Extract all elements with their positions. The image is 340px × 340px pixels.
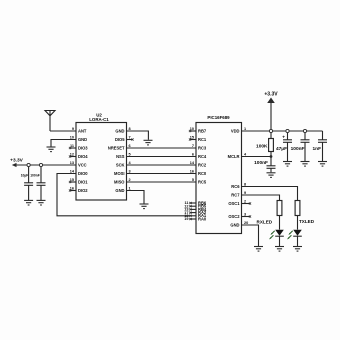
svg-text:RC6: RC6 — [231, 184, 240, 189]
svg-text:100nF: 100nF — [30, 174, 40, 178]
svg-text:8: 8 — [129, 127, 131, 131]
svg-text:100K: 100K — [256, 144, 268, 150]
module U2 LORA-C1 — [70, 113, 132, 201]
svg-text:1nF: 1nF — [312, 146, 321, 152]
svg-text:OSC1: OSC1 — [228, 201, 240, 206]
svg-text:13: 13 — [70, 161, 74, 165]
svg-text:GND: GND — [115, 128, 124, 133]
wire U2 MISO pin 2 to U1 RC5 pin 5 — [127, 181, 197, 183]
U1 pin 15 RC1 no-connect stub — [189, 138, 196, 140]
U1 pin 11 RB6 no-connect stub — [189, 202, 196, 204]
svg-text:9: 9 — [244, 191, 246, 195]
wire U2 NRESET pin 6 to U1 RC3 pin 7 — [127, 147, 197, 149]
ground — [275, 247, 284, 252]
svg-text:RC0: RC0 — [198, 171, 207, 176]
svg-text:PIC16F689: PIC16F689 — [207, 115, 230, 120]
U2 pin 7 DIO5 no-connect stub — [127, 138, 134, 140]
svg-text:+: + — [282, 136, 285, 141]
wire U1 VDD pin 1 rail — [242, 130, 323, 132]
wire antenna to U2 ANT pin 9 — [50, 130, 76, 132]
svg-text:100nF: 100nF — [254, 160, 268, 166]
svg-text:OSC2: OSC2 — [228, 214, 240, 219]
LED RXLED — [269, 216, 284, 247]
svg-text:10: 10 — [70, 136, 74, 140]
svg-text:NSS: NSS — [116, 154, 125, 159]
U1 pin 17 RA2 no-connect stub — [189, 212, 196, 214]
node junction VDD/+3.3V — [269, 129, 272, 132]
ground — [24, 200, 33, 205]
svg-text:100nF: 100nF — [291, 146, 305, 152]
svg-text:VCC: VCC — [78, 162, 87, 167]
wire U2 GND pin 10 to ground — [51, 140, 76, 147]
node junction MCLR — [270, 155, 273, 158]
svg-text:+3.3V: +3.3V — [10, 158, 23, 164]
ground — [283, 162, 292, 167]
U1 pin 2 OSC1 no-connect stub — [242, 202, 252, 204]
svg-text:GND: GND — [78, 137, 87, 142]
U1 pin 12 RB5 no-connect stub — [189, 205, 196, 207]
U1 pin 3 OSC2 no-connect stub — [242, 215, 252, 217]
ground — [37, 200, 46, 205]
svg-text:GND: GND — [115, 188, 124, 193]
svg-text:GND: GND — [230, 222, 239, 227]
svg-text:RC4: RC4 — [198, 154, 207, 159]
svg-text:16: 16 — [190, 170, 194, 174]
svg-text:MISO: MISO — [114, 179, 125, 184]
LED TXLED — [287, 216, 302, 247]
microcontroller U1 PIC16F689 — [184, 115, 248, 234]
U1 pin 13 RB4 no-connect stub — [189, 208, 196, 210]
svg-text:9: 9 — [72, 127, 74, 131]
ground — [140, 204, 149, 209]
U2 pin 11 DIO3 no-connect stub — [69, 147, 76, 149]
svg-text:+3.3V: +3.3V — [264, 92, 278, 98]
capacitor 1nF — [312, 131, 327, 161]
svg-text:1: 1 — [244, 127, 246, 131]
svg-text:DIO0: DIO0 — [78, 171, 88, 176]
capacitor 100nF rail — [291, 133, 310, 161]
wire U2 GND pin 8 to ground — [127, 131, 149, 140]
svg-text:2: 2 — [244, 200, 246, 204]
svg-text:RC2: RC2 — [198, 162, 207, 167]
resistor RXLED series — [277, 201, 282, 216]
wire U2 GND pin 1 to ground — [127, 191, 145, 204]
wire U1 GND pin 20 to ground — [242, 225, 259, 246]
U2 pin 12 DIO4 no-connect stub — [69, 155, 76, 157]
svg-text:20: 20 — [244, 221, 248, 225]
U1 pin 18 RA1 stub — [189, 215, 196, 217]
U2 pin 16 DIO2 no-connect stub — [69, 189, 76, 191]
power flag +3.3V right — [264, 92, 278, 132]
antenna ANT1 — [45, 111, 55, 132]
node junction C6 tap — [27, 163, 30, 166]
svg-text:RB7: RB7 — [198, 128, 207, 133]
svg-text:LORA-C1: LORA-C1 — [89, 117, 109, 122]
wire U2 MOSI pin 3 to U1 RC0 pin 16 — [127, 173, 197, 175]
svg-text:3: 3 — [244, 213, 246, 217]
svg-text:DIO4: DIO4 — [78, 154, 88, 159]
ground — [144, 140, 153, 145]
svg-text:DIO2: DIO2 — [78, 188, 88, 193]
ground — [47, 147, 56, 152]
resistor TXLED series — [295, 201, 300, 216]
svg-text:7: 7 — [192, 144, 194, 148]
svg-text:DIO1: DIO1 — [78, 179, 88, 184]
capacitor 100nF — [30, 167, 45, 200]
ground — [301, 162, 310, 167]
svg-text:RC1: RC1 — [198, 137, 207, 142]
U1 pin 10 RB7 no-connect stub — [189, 130, 196, 132]
svg-text:DIO5: DIO5 — [115, 137, 125, 142]
svg-text:3: 3 — [129, 170, 131, 174]
ground — [267, 173, 276, 178]
node junction C7 tap — [39, 163, 42, 166]
svg-text:MOSI: MOSI — [114, 171, 124, 176]
svg-text:RC7: RC7 — [231, 192, 240, 197]
U1 pin 19 RA0 no-connect stub — [189, 218, 196, 220]
wire U2 DIO0 pin 14 to U1 RA1 pin 18 — [57, 174, 190, 216]
wire U2 NSS pin 5 to U1 RC4 pin 6 — [127, 156, 197, 158]
svg-text:47µF: 47µF — [276, 146, 287, 152]
ground — [293, 247, 302, 252]
svg-text:RC5: RC5 — [198, 179, 207, 184]
svg-text:TXLED: TXLED — [299, 219, 315, 224]
svg-text:SCK: SCK — [116, 162, 125, 167]
svg-text:5: 5 — [129, 153, 131, 157]
wire +3.3V rail to U2 VCC pin 13 — [17, 164, 77, 166]
capacitor 100nF MCLR — [254, 157, 275, 173]
power flag +3.3V left — [10, 158, 23, 168]
ground — [254, 247, 263, 252]
resistor 100K — [256, 133, 273, 157]
wire U1 RC7 pin 9 to RXLED resistor — [242, 195, 280, 201]
wire U1 RC6 pin 8 to TXLED resistor — [242, 187, 298, 201]
svg-text:1: 1 — [129, 187, 131, 191]
svg-text:6: 6 — [192, 153, 194, 157]
svg-text:8: 8 — [244, 183, 246, 187]
ground — [318, 162, 327, 167]
wire U2 SCK pin 4 to U1 RC2 pin 14 — [127, 164, 197, 166]
svg-text:2: 2 — [129, 178, 131, 182]
svg-text:19: 19 — [184, 217, 188, 221]
svg-text:RA0: RA0 — [198, 216, 207, 221]
capacitor 47uF — [276, 133, 292, 161]
node junction C2 tap — [303, 129, 306, 132]
svg-text:5: 5 — [192, 178, 194, 182]
svg-text:VDD: VDD — [231, 128, 240, 133]
node junction C1 tap — [286, 129, 289, 132]
U2 pin 15 DIO1 no-connect stub — [69, 181, 76, 183]
svg-text:7: 7 — [129, 136, 131, 140]
capacitor 10uF — [21, 167, 33, 200]
svg-text:NRESET: NRESET — [108, 145, 125, 150]
svg-text:RC3: RC3 — [198, 145, 207, 150]
svg-text:DIO3: DIO3 — [78, 145, 88, 150]
svg-text:ANT: ANT — [78, 128, 87, 133]
svg-text:6: 6 — [129, 144, 131, 148]
wire U1 MCLR pin 4 to 100K/100nF — [242, 156, 272, 158]
svg-text:10µF: 10µF — [21, 174, 29, 178]
svg-text:MCLR: MCLR — [228, 154, 240, 159]
svg-text:RXLED: RXLED — [257, 220, 273, 225]
